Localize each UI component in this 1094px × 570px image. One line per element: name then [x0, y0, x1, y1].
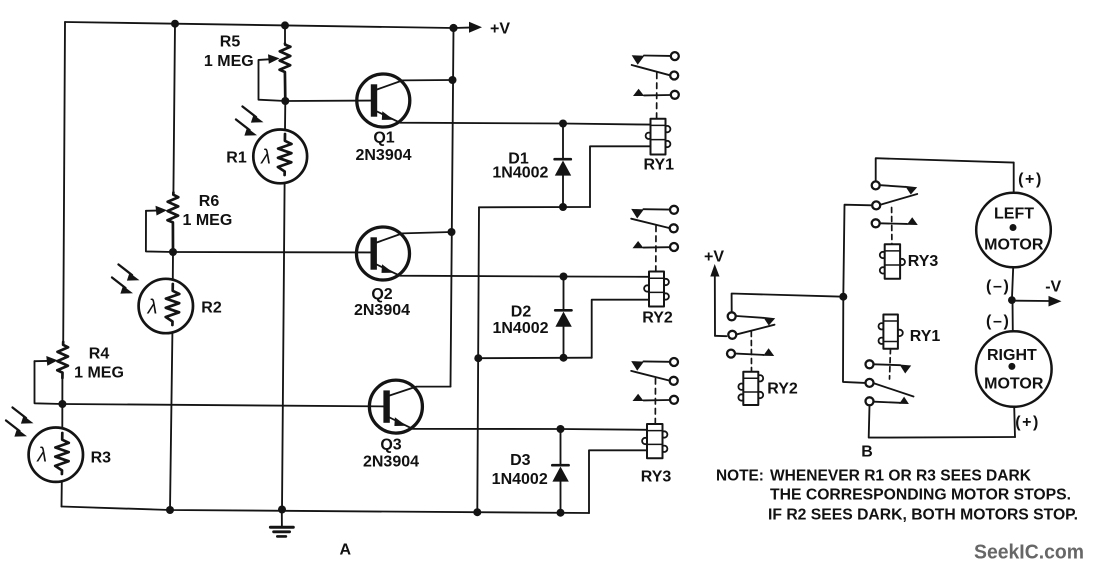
-V arrow — [1012, 300, 1049, 302]
wire top +V rail — [65, 22, 454, 28]
relay RY1 linkage dashed — [656, 73, 658, 119]
svg-text:A: A — [340, 542, 352, 559]
wire R2 to ground rail — [170, 333, 172, 510]
svg-text:1 MEG: 1 MEG — [204, 53, 254, 70]
wire node to RY1 common — [843, 297, 865, 383]
node junction R1 branch / ground rail — [278, 506, 286, 514]
node junction -V — [1008, 296, 1016, 304]
transistor Q2 2N3904 — [357, 227, 410, 280]
node junction Q1 collector / +V rail — [449, 76, 457, 84]
svg-text:R4: R4 — [89, 346, 110, 363]
motor LEFT MOTOR — [976, 193, 1051, 268]
svg-text:R5: R5 — [220, 34, 241, 51]
svg-text:MOTOR: MOTOR — [984, 375, 1044, 392]
svg-text:SeekIC.com: SeekIC.com — [974, 542, 1084, 564]
relay coil RY1 — [664, 126, 670, 132]
relay coil RY3 — [661, 431, 667, 437]
svg-text:RY2: RY2 — [767, 380, 798, 397]
wire R5 branch top lead — [284, 25, 286, 44]
relay coil RY2 section B — [738, 384, 744, 390]
wire -V node to RIGHT MOTOR — [1012, 300, 1014, 331]
light arrows for R2 — [119, 265, 133, 276]
wire +V rail vertical — [451, 28, 454, 387]
node junction Q1 emitter / D1 — [559, 120, 567, 128]
wire RIGHT MOTOR to bottom rail — [1013, 407, 1016, 437]
wire RY3 NC terminal to top rail — [876, 158, 1014, 181]
wire Q1 base from R5 node — [285, 100, 372, 102]
svg-text:(–): (–) — [986, 313, 1010, 330]
svg-text:1 MEG: 1 MEG — [74, 365, 124, 382]
svg-text:RY1: RY1 — [644, 157, 675, 174]
wire Q3 emitter to relay RY3 coil — [561, 428, 648, 431]
svg-text:RY3: RY3 — [641, 469, 672, 486]
svg-text:R2: R2 — [201, 300, 222, 317]
relay RY2 linkage dashed section B — [750, 332, 752, 372]
photocell R3 — [29, 428, 83, 482]
svg-text:2N3904: 2N3904 — [363, 454, 419, 471]
node junction D1 anode — [559, 203, 567, 211]
svg-text:1N4002: 1N4002 — [492, 320, 548, 337]
relay RY1 contacts — [671, 52, 679, 60]
node junction ground branch / ground rail — [473, 508, 481, 516]
diode D1 1N4002 — [562, 124, 564, 160]
svg-text:IF R2 SEES DARK, BOTH MOTORS S: IF R2 SEES DARK, BOTH MOTORS STOP. — [768, 506, 1078, 523]
svg-text:Q1: Q1 — [373, 130, 394, 147]
svg-text:1N4002: 1N4002 — [492, 164, 548, 181]
svg-text:Q2: Q2 — [371, 286, 392, 303]
node junction top of R5 branch — [281, 21, 289, 29]
wire RY2 NC terminal to node — [732, 294, 844, 312]
svg-text:RIGHT: RIGHT — [987, 347, 1037, 364]
node junction R4 wiper / Q3 base — [58, 400, 66, 408]
svg-text:RY3: RY3 — [908, 253, 939, 270]
wire R4 to R3 — [61, 378, 63, 428]
wire +V to RY2 common — [715, 335, 727, 337]
diode D2 1N4002 — [563, 277, 565, 311]
R4 wiper arrow and wire — [35, 360, 48, 362]
svg-text:R1: R1 — [226, 150, 247, 167]
motor RIGHT MOTOR — [976, 331, 1052, 407]
+V supply arrow section B — [714, 271, 716, 336]
node junction +V rail — [449, 24, 457, 32]
node junction ground branch / D2 line — [474, 354, 482, 362]
relay RY3 linkage dashed — [654, 379, 656, 425]
svg-text:+V: +V — [490, 21, 510, 38]
R5 wiper arrow and wire — [259, 58, 269, 61]
photocell R2 — [139, 279, 193, 333]
svg-text:R6: R6 — [199, 193, 220, 210]
node junction R5 wiper / Q1 base — [281, 97, 289, 105]
light arrows for R3 — [13, 408, 27, 419]
node junction D3 anode / ground rail — [557, 509, 565, 517]
relay RY2 linkage dashed — [655, 226, 657, 272]
wire R1 to ground rail — [282, 183, 285, 509]
node junction D2 anode — [560, 354, 568, 362]
wire RY1 NO terminal to bottom rail — [869, 405, 1015, 437]
svg-text:λ: λ — [147, 297, 158, 319]
transistor Q1 2N3904 — [357, 74, 410, 127]
wire Q2 emitter to relay RY2 coil — [564, 276, 650, 278]
R6 wiper arrow and wire — [146, 210, 157, 212]
svg-text:1 MEG: 1 MEG — [183, 212, 233, 229]
svg-text:B: B — [861, 444, 873, 461]
wire left rail upper — [63, 22, 65, 344]
svg-text:+V: +V — [704, 249, 724, 266]
wire Q2 base from R6 node — [173, 251, 372, 253]
svg-text:RY2: RY2 — [642, 310, 673, 327]
svg-text:Q3: Q3 — [380, 437, 401, 454]
relay RY3 contacts — [670, 358, 678, 366]
svg-text:-V: -V — [1045, 279, 1061, 296]
svg-text:R3: R3 — [91, 450, 112, 467]
relay RY1 contacts section B — [866, 360, 874, 368]
node junction top of R2 branch — [171, 20, 179, 28]
node junction R2 branch / ground rail — [166, 506, 174, 514]
relay RY2 contacts section B — [728, 312, 736, 320]
relay coil RY2 — [663, 279, 669, 285]
potentiometer R4 1 MEG — [57, 342, 68, 378]
svg-text:1N4002: 1N4002 — [492, 471, 548, 488]
svg-text:2N3904: 2N3904 — [355, 147, 411, 164]
relay coil RY3 section B — [880, 252, 886, 258]
relay RY2 contacts — [670, 206, 678, 214]
relay coil RY1 section B — [879, 323, 885, 329]
svg-text:MOTOR: MOTOR — [984, 237, 1044, 254]
relay RY3 contacts section B — [872, 181, 880, 189]
light arrows for R1 — [243, 107, 257, 118]
node junction Q3 emitter / D3 — [557, 425, 565, 433]
relay RY1 linkage dashed section B — [890, 349, 891, 379]
svg-text:D3: D3 — [510, 452, 531, 469]
node junction Q2 emitter / D2 — [560, 273, 568, 281]
svg-text:RY1: RY1 — [910, 328, 941, 345]
potentiometer R5 1 MEG — [280, 44, 291, 101]
diode D3 1N4002 — [560, 429, 562, 465]
wire R3 to ground rail — [61, 482, 63, 507]
node junction Q2 collector / +V rail — [448, 228, 456, 236]
relay RY3 linkage dashed section B — [891, 208, 893, 245]
wire R2 branch upper — [173, 24, 175, 195]
svg-text:NOTE:: NOTE: — [716, 467, 764, 484]
svg-text:(+): (+) — [1015, 414, 1040, 431]
svg-text:LEFT: LEFT — [994, 206, 1034, 223]
ground symbol — [281, 510, 283, 526]
svg-text:(–): (–) — [986, 278, 1010, 295]
wire LEFT MOTOR to -V node — [1012, 267, 1013, 300]
transistor Q3 2N3904 — [369, 380, 422, 433]
svg-text:D2: D2 — [511, 304, 532, 321]
potentiometer R6 1 MEG — [168, 193, 179, 253]
svg-text:2N3904: 2N3904 — [354, 302, 410, 319]
wire top rail to LEFT MOTOR — [1013, 163, 1015, 193]
node junction R6 wiper / Q2 base — [169, 248, 177, 256]
photocell R1 — [253, 130, 307, 184]
svg-text:THE CORRESPONDING MOTOR STOPS.: THE CORRESPONDING MOTOR STOPS. — [770, 487, 1071, 504]
wire D1 bottom to ground branch and RY1 coil return — [479, 206, 590, 208]
svg-text:(+): (+) — [1018, 171, 1043, 188]
wire ground branch vertical — [477, 207, 479, 512]
wire R5 to R1 — [284, 101, 286, 130]
wire Q3 base from R4 node — [62, 404, 384, 406]
wire node to RY3 common — [843, 205, 871, 297]
node junction section B distribution — [839, 293, 847, 301]
+V supply arrow — [454, 27, 470, 29]
wire D2 bottom to ground branch and RY2 coil return — [478, 357, 591, 360]
svg-text:λ: λ — [36, 445, 47, 467]
svg-text:WHENEVER R1 OR R3 SEES DARK: WHENEVER R1 OR R3 SEES DARK — [770, 467, 1031, 484]
svg-text:λ: λ — [260, 147, 271, 169]
wire Q1 emitter to relay RY1 coil — [563, 124, 651, 125]
wire ground rail to RY3 coil return — [589, 450, 647, 513]
wire ground rail — [62, 507, 590, 514]
wire R6 to R2 — [172, 252, 174, 279]
